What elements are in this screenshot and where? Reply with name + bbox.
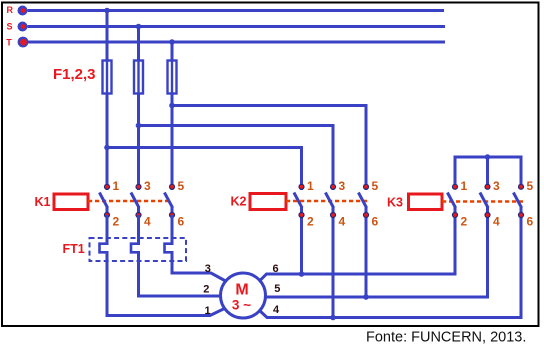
node junction motor6/K2-2 (299, 271, 305, 277)
terminal R (7, 5, 28, 16)
wire branch from S drop to contact K2-3 (139, 126, 334, 191)
contact K1 pole 5-6 (164, 179, 184, 229)
mechanical link K2 (dashed) (286, 200, 368, 202)
contact K1 pole 3-4 (131, 179, 151, 229)
contact K3 pole 1-2 (447, 179, 467, 229)
contact K2 pole 3-4 (325, 179, 345, 229)
node junction motor4/K2-4 (330, 315, 336, 321)
svg-text:F1,2,3: F1,2,3 (53, 66, 96, 83)
wire drop from R to fuse F1 and contact K1-1 (106, 11, 109, 191)
svg-text:3: 3 (205, 263, 211, 275)
svg-text:3: 3 (144, 179, 151, 193)
wire motor terminal 6 to K2-2 and K3-2 (259, 218, 455, 282)
svg-text:1: 1 (307, 179, 314, 193)
node junction T drop (169, 39, 175, 45)
wire phase R bus (28, 9, 445, 12)
contact K2 pole 5-6 (358, 179, 378, 229)
svg-text:3 ~: 3 ~ (232, 298, 251, 313)
svg-text:6: 6 (273, 263, 279, 275)
svg-text:2: 2 (307, 215, 314, 229)
node junction star bridge (485, 154, 491, 160)
wire phase T bus (28, 41, 445, 44)
wire motor terminal 5 to K2-6 and K3-4 (266, 218, 488, 297)
mechanical link K1 (dashed) (88, 200, 172, 202)
svg-text:4: 4 (339, 215, 346, 229)
svg-text:Fonte: FUNCERN, 2013.: Fonte: FUNCERN, 2013. (366, 330, 526, 344)
svg-text:R: R (7, 5, 14, 15)
svg-text:FT1: FT1 (63, 242, 85, 256)
overload relay FT1 dashed box (90, 238, 187, 261)
overload heater FT1 pole 3 (165, 244, 173, 253)
fuse F3 (168, 61, 177, 94)
node junction T branch (169, 103, 175, 109)
mechanical link K3 (dashed) (442, 200, 523, 202)
svg-text:3: 3 (339, 179, 346, 193)
svg-text:1: 1 (113, 179, 120, 193)
wire star bridge over K3 (455, 157, 521, 189)
node junction S drop (136, 24, 142, 30)
wire motor terminal 4 to K2-4 and K3-6 (259, 218, 521, 318)
wire FT1 pole 3 to motor terminal 3 (172, 251, 227, 282)
wire K1-2 into FT1 (106, 215, 109, 245)
contact K2 pole 1-2 (294, 179, 314, 229)
wire phase S bus (28, 25, 446, 28)
svg-text:S: S (7, 22, 13, 32)
wire K1-6 into FT1 (171, 215, 174, 245)
contact K3 pole 3-4 (480, 179, 500, 229)
motor M 3-phase (221, 273, 266, 318)
svg-text:M: M (235, 282, 248, 299)
wire drop from S to fuse F2 and contact K1-3 (137, 27, 140, 191)
wire branch from T drop to contact K2-5 (172, 106, 366, 191)
wire branch from R drop to contact K2-1 (107, 148, 302, 191)
wire K2-4 down to motor 4 line (332, 218, 335, 318)
contactor coil K2 (231, 194, 287, 210)
wire star bridge center drop to K3-3 (486, 157, 489, 189)
wire K2-6 down to motor 5 line (365, 218, 368, 297)
svg-text:5: 5 (527, 179, 534, 193)
svg-text:6: 6 (527, 215, 534, 229)
terminal S (7, 22, 28, 32)
contact K3 pole 5-6 (513, 179, 533, 229)
svg-text:6: 6 (372, 215, 379, 229)
svg-text:5: 5 (274, 283, 280, 295)
svg-text:4: 4 (144, 215, 151, 229)
svg-text:K2: K2 (231, 195, 247, 209)
terminal T (6, 37, 28, 48)
svg-text:5: 5 (178, 179, 185, 193)
svg-text:K1: K1 (35, 195, 51, 209)
fuse F1 (103, 61, 112, 94)
wire K2-2 down to motor 6 line (300, 218, 303, 274)
svg-text:1: 1 (461, 179, 468, 193)
overload heater FT1 pole 1 (100, 244, 108, 253)
svg-text:4: 4 (273, 304, 280, 316)
node junction R drop (104, 8, 110, 14)
svg-text:6: 6 (178, 215, 185, 229)
svg-text:1: 1 (205, 305, 211, 317)
svg-text:3: 3 (493, 179, 500, 193)
contact K1 pole 1-2 (99, 179, 119, 229)
fuse F2 (134, 61, 143, 94)
wire FT1 pole 2 to motor terminal 2 (139, 251, 222, 296)
wire K1-4 into FT1 (137, 215, 140, 245)
wire FT1 pole 1 to motor terminal 1 (107, 251, 226, 316)
node junction motor5/K2-6 (363, 294, 369, 300)
node junction S branch (136, 123, 142, 129)
node junction R branch (104, 145, 110, 151)
svg-text:T: T (6, 37, 12, 47)
svg-text:2: 2 (461, 215, 468, 229)
svg-text:5: 5 (372, 179, 379, 193)
svg-text:2: 2 (203, 284, 209, 296)
wire drop from T to fuse F3 and contact K1-5 (171, 42, 174, 190)
svg-text:2: 2 (113, 215, 120, 229)
svg-text:K3: K3 (387, 196, 403, 210)
contactor coil K1 (35, 194, 89, 210)
svg-text:4: 4 (493, 215, 500, 229)
overload heater FT1 pole 2 (131, 244, 139, 253)
contactor coil K3 (387, 194, 442, 210)
